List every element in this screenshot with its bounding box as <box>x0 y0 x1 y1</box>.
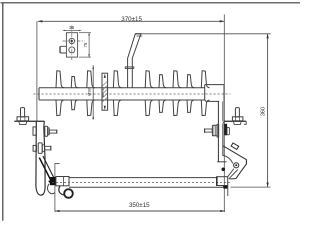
shed 1 large <box>56 71 64 88</box>
left bracket bolt A washer <box>45 126 48 136</box>
left bracket bolt B nut <box>42 145 44 152</box>
dimension 370±15 line <box>38 20 225 22</box>
shed 5 large <box>145 71 153 88</box>
detail plate centerline vertical <box>71 26 73 61</box>
left bracket bolt B shank <box>45 146 51 150</box>
shackle ring <box>64 189 73 198</box>
right tongue plate <box>217 101 219 162</box>
shed 4 large <box>113 71 121 88</box>
lower rod tube top <box>69 177 217 179</box>
lower rod clamp block <box>50 177 56 185</box>
right bracket hole <box>234 163 239 168</box>
right vertical bolt nut <box>232 117 243 121</box>
shed diameter dimension Ø98 <box>92 65 94 119</box>
detail side tube <box>60 46 66 53</box>
dimension 370±15 left arrow <box>38 20 43 22</box>
shackle hook arc <box>59 186 65 195</box>
detail dimension 75 line <box>88 33 90 57</box>
clamp tail curve <box>47 184 54 194</box>
svg-text:350±15: 350±15 <box>129 202 150 209</box>
detail upper hole centerline horizontal <box>63 40 85 42</box>
svg-text:75: 75 <box>83 42 88 47</box>
left strap to rod clamp <box>39 158 50 180</box>
right rod sleeve <box>217 177 228 186</box>
dimension 370±15 right arrow <box>220 20 225 22</box>
left vertical bolt shank <box>21 108 25 117</box>
right bracket pin dot <box>222 168 226 172</box>
left bracket bolt B head <box>33 145 36 151</box>
insulator core rod top <box>39 87 205 89</box>
left bracket bolt B washer <box>38 143 42 154</box>
shed 7 large <box>173 71 181 88</box>
sheet border top <box>1 2 301 4</box>
detail upper hole <box>69 38 74 43</box>
right bolt black spacer <box>224 124 227 136</box>
svg-text:Ø75: Ø75 <box>100 88 105 96</box>
dimension 350±15 left arrow <box>55 210 60 212</box>
dimension 350±15 line <box>55 210 225 212</box>
right clamp black blob <box>223 186 227 189</box>
insulator right end fitting <box>205 85 224 102</box>
dimension 360 line <box>267 34 269 187</box>
svg-text:360: 360 <box>260 107 266 116</box>
shed 3 large <box>87 71 95 88</box>
detail plate outline <box>66 33 77 57</box>
right horizontal bolt shank <box>205 129 213 132</box>
detail dimension 75 ext ticks <box>79 32 91 34</box>
insulator left end line <box>38 88 40 100</box>
lower rod centerline <box>52 182 230 184</box>
lower rod sleeve left <box>56 177 69 186</box>
extension line left x=55 <box>54 185 56 212</box>
top stem collar line <box>125 67 134 69</box>
svg-text:370±15: 370±15 <box>121 16 142 23</box>
left bracket plate left edge <box>36 121 45 195</box>
lower rod tube bottom <box>69 186 228 188</box>
left bracket bolt A shank <box>49 130 57 133</box>
left vertical bolt nut <box>17 117 29 121</box>
left bracket bolt A nut <box>48 128 50 135</box>
right bolt backing nut <box>227 127 229 134</box>
dimension 350±15 right arrow <box>220 210 225 212</box>
detail dimension 35 line <box>66 29 77 31</box>
left bracket flange <box>14 120 44 122</box>
right bracket foot <box>233 121 241 124</box>
svg-text:35: 35 <box>69 25 75 30</box>
grading collar hatched <box>102 73 108 110</box>
right horizontal bolt nut <box>212 125 217 136</box>
top terminal tab <box>128 34 141 58</box>
shed 2 small <box>71 76 78 87</box>
shed 6 small <box>159 75 166 88</box>
shed 8 small <box>187 75 194 88</box>
right bracket diagonal bolt <box>231 143 239 149</box>
detail lower hole <box>69 47 75 53</box>
insulator core rod bottom <box>39 99 205 101</box>
extension line left x=38 <box>36 21 38 121</box>
right horizontal bolt washer <box>217 124 219 137</box>
right lower stub <box>227 186 229 197</box>
dimension 360 top arrow <box>266 34 268 39</box>
right vertical bolt shank <box>235 108 239 117</box>
extension line top y=33.8 <box>141 33 271 35</box>
insulator centerline axis <box>34 93 231 95</box>
shed 9 large <box>201 71 209 88</box>
sheet border left <box>2 3 4 221</box>
extension line bottom y=187 <box>231 186 271 188</box>
svg-text:Ø98: Ø98 <box>87 87 92 95</box>
left bracket bolt A head <box>33 127 36 135</box>
right sleeve link lines <box>228 169 234 177</box>
350 extension upper stub <box>54 164 56 178</box>
left bracket foot <box>19 121 27 124</box>
dimension 360 bottom arrow <box>266 183 268 188</box>
right lower bracket body <box>217 161 226 163</box>
top stem <box>127 58 129 88</box>
right bracket flange <box>224 120 246 122</box>
extension line right x=224 <box>223 15 225 213</box>
